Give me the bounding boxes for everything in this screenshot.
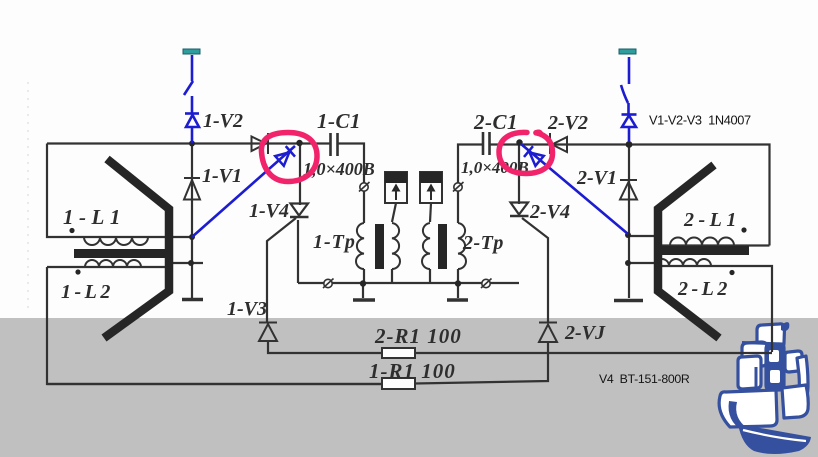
svg-text:2-L2: 2-L2 <box>677 278 731 300</box>
svg-text:1-L2: 1-L2 <box>61 281 114 303</box>
svg-text:2-VJ: 2-VJ <box>564 322 606 344</box>
svg-text:1-R1 100: 1-R1 100 <box>369 359 456 383</box>
svg-text:1-V1: 1-V1 <box>202 165 242 187</box>
svg-text:2-L1: 2-L1 <box>683 209 741 231</box>
svg-text:2-V1: 2-V1 <box>576 167 617 189</box>
svg-text:1-Tp: 1-Tp <box>313 231 356 253</box>
svg-text:1-L1: 1-L1 <box>63 205 126 229</box>
svg-text:1-V3: 1-V3 <box>227 298 267 320</box>
svg-text:2-V2: 2-V2 <box>547 112 588 134</box>
svg-text:2-Tp: 2-Tp <box>462 232 504 254</box>
svg-text:2-C1: 2-C1 <box>473 110 518 134</box>
svg-text:1-V4: 1-V4 <box>249 200 289 222</box>
svg-text:1-C1: 1-C1 <box>317 109 361 133</box>
svg-text:V1-V2-V3 1N4007: V1-V2-V3 1N4007 <box>649 113 751 128</box>
svg-text:V4 BT-151-800R: V4 BT-151-800R <box>599 372 690 386</box>
svg-text:1-V2: 1-V2 <box>203 110 243 132</box>
svg-text:2-R1 100: 2-R1 100 <box>374 324 462 348</box>
svg-text:2-V4: 2-V4 <box>529 201 570 223</box>
